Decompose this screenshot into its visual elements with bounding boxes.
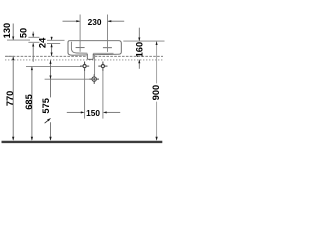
- floor line: [2, 141, 163, 143]
- extension line 230 right: [107, 15, 109, 52]
- svg-text:230: 230: [88, 17, 102, 27]
- dimension 150 arrows: [67, 111, 120, 113]
- dimension 685 vertical: [31, 67, 33, 140]
- dashed line1 (level of basin bottom, 770): [5, 55, 163, 57]
- svg-text:160: 160: [134, 42, 144, 58]
- dimension 24 arrows: [51, 37, 53, 56]
- basin inner bowl line: [71, 42, 87, 53]
- dimension 900 vertical: [156, 41, 158, 83]
- adjustable arrow: [45, 120, 49, 123]
- extension line 230 left: [79, 15, 81, 52]
- svg-text:50: 50: [19, 28, 29, 38]
- svg-text:770: 770: [5, 91, 15, 107]
- dimension 50 arrows: [32, 32, 34, 62]
- fixing hole crosshair right: [98, 62, 107, 71]
- svg-text:575: 575: [41, 98, 51, 114]
- fixing bolt level line 685: [26, 65, 81, 67]
- vertical between wall lines and siphon level: [50, 60, 52, 97]
- tap hole cross right: [103, 47, 112, 49]
- dashed line2 (wall connection level): [5, 59, 163, 61]
- rim level line left segment a: [7, 39, 30, 41]
- drain centre line down to wall outlet: [94, 54, 96, 74]
- rim level line right: [123, 40, 164, 42]
- svg-text:150: 150: [86, 108, 100, 118]
- solid tick at 770 level: [6, 55, 15, 57]
- line A top of 50: [28, 36, 39, 38]
- fixing hole crosshair left: [80, 62, 89, 71]
- basin inner bottom right: [93, 52, 113, 54]
- line A2 bottom of 50: [28, 41, 39, 43]
- dimension 130 vertical line: [12, 24, 14, 40]
- washbasin outline side view: [68, 41, 121, 56]
- fixing hole extension left: [84, 70, 86, 119]
- dimension 160 lower arrow: [138, 60, 140, 69]
- drain boss cup below basin: [87, 54, 93, 60]
- siphon level line 575: [45, 78, 90, 80]
- dimension 770 vertical: [12, 57, 14, 140]
- dimension 230 arrows: [63, 20, 125, 22]
- dimension 160 upper arrow: [138, 28, 140, 41]
- line C bottom of 24: [47, 43, 60, 45]
- svg-text:24: 24: [37, 37, 47, 48]
- svg-text:130: 130: [2, 23, 12, 39]
- svg-text:685: 685: [24, 94, 34, 110]
- fixing hole extension right: [102, 70, 104, 119]
- rim level line left segment b: [47, 39, 65, 41]
- tap hole cross left: [76, 47, 85, 49]
- drain outlet crosshair: [89, 74, 99, 84]
- svg-text:900: 900: [151, 85, 161, 101]
